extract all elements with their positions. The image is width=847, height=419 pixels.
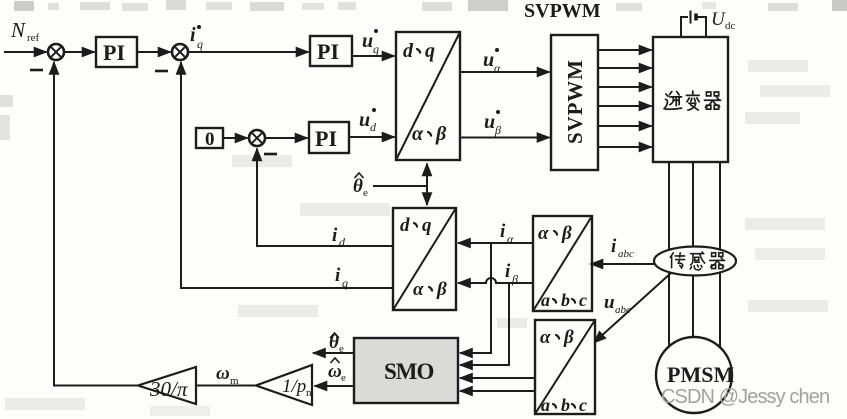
circle PMSM motor	[656, 337, 732, 413]
svg-text:β: β	[511, 272, 518, 286]
wire SVPWM to inverter gate signal 4	[598, 105, 652, 107]
svg-text:b: b	[561, 395, 570, 415]
svg-text:CSDN @Jessy chen: CSDN @Jessy chen	[661, 386, 829, 408]
block alpha-beta to abc current transform	[533, 216, 592, 311]
svg-text:i: i	[190, 24, 196, 46]
svg-text:ω: ω	[328, 361, 342, 382]
wire u_beta* to SVPWM	[460, 137, 550, 139]
svg-text:c: c	[579, 395, 587, 415]
svg-text:β: β	[436, 279, 447, 300]
svg-text:ref: ref	[27, 32, 40, 44]
wire u_alpha* to SVPWM	[460, 71, 550, 73]
svg-text:i: i	[335, 265, 341, 286]
wire junction2 to PI2	[188, 51, 309, 53]
block alpha-beta to abc voltage transform	[535, 320, 595, 414]
svg-text:q: q	[197, 37, 203, 51]
svg-text:n: n	[306, 387, 312, 399]
block SVPWM	[551, 35, 598, 170]
svg-text:PI: PI	[315, 126, 337, 151]
wire junction1 to PI1	[64, 51, 95, 53]
label sensor text chuan-gan-qi	[670, 253, 684, 268]
label inverter text ni-bian-qi	[664, 91, 682, 109]
svg-text:e: e	[363, 187, 368, 199]
svg-text:1/p: 1/p	[282, 376, 306, 397]
wire theta_e to transforms (vertical double arrow)	[426, 165, 428, 203]
svg-text:α: α	[413, 279, 424, 300]
svg-text:β: β	[494, 123, 501, 137]
wire tap i_beta down to SMO	[465, 283, 509, 365]
node summing junction 1	[48, 44, 64, 60]
svg-text:α: α	[538, 223, 549, 244]
svg-text:a: a	[541, 290, 550, 310]
node summing junction 2	[172, 44, 188, 60]
svg-text:0: 0	[205, 129, 215, 150]
svg-text:α: α	[494, 61, 501, 75]
wire SVPWM to inverter gate signal 5	[598, 125, 652, 127]
wire junction3 to PI3	[265, 137, 308, 139]
svg-text:q: q	[342, 276, 348, 290]
svg-text:u: u	[359, 109, 370, 131]
svg-text:q: q	[422, 215, 432, 236]
wire u_alpha voltage into SMO	[460, 377, 535, 379]
svg-text:q: q	[373, 42, 379, 56]
svg-text:i: i	[611, 236, 617, 257]
wire 0 box to junction3	[223, 137, 248, 139]
svg-text:N: N	[10, 18, 26, 42]
svg-text:SVPWM: SVPWM	[563, 60, 587, 144]
wire inverter phase b	[692, 162, 694, 339]
svg-text:α: α	[507, 232, 514, 246]
wire PI2 to dq-ab block (u_q*)	[352, 55, 395, 57]
block PI speed regulator	[96, 37, 137, 67]
svg-text:PI: PI	[103, 40, 125, 65]
svg-text:d: d	[400, 215, 410, 236]
block PI d-axis current regulator	[309, 122, 349, 153]
block dq to alpha-beta voltage transform U1	[396, 32, 460, 160]
svg-text:d: d	[339, 235, 346, 249]
wire omega_m to 30/pi	[196, 385, 256, 387]
svg-text:PMSM: PMSM	[667, 362, 734, 387]
minus sign at junction 1	[30, 69, 43, 72]
svg-text:U: U	[711, 9, 726, 30]
wire omega_e output from SMO to 1/pn	[315, 385, 355, 387]
svg-text:e: e	[341, 372, 346, 384]
wire u_abc from sensor to ab-abc voltage block	[594, 273, 672, 343]
svg-text:u: u	[362, 30, 373, 52]
wire i_abc from sensor to ab-abc current block	[591, 263, 655, 265]
svg-text:α: α	[412, 123, 424, 145]
svg-text:c: c	[579, 290, 587, 310]
svg-text:e: e	[339, 343, 344, 355]
wire PI3 to dq-ab block (u_d*)	[349, 136, 395, 138]
block dq to alpha-beta current transform U2	[393, 208, 456, 310]
ellipse sensor (chuanganqi)	[654, 247, 736, 276]
svg-text:u: u	[484, 111, 495, 133]
block SMO observer	[354, 338, 458, 403]
svg-text:u: u	[604, 292, 615, 313]
svg-text:b: b	[561, 290, 570, 310]
svg-text:i: i	[500, 221, 506, 242]
svg-text:θ: θ	[353, 176, 363, 197]
svg-text:d: d	[403, 40, 414, 62]
svg-text:d: d	[370, 120, 377, 134]
svg-text:SVPWM: SVPWM	[524, 0, 601, 22]
node summing junction 3	[249, 130, 265, 146]
wire inverter phase c	[719, 162, 721, 347]
svg-text:PI: PI	[317, 39, 339, 64]
block inverter	[653, 37, 728, 162]
wire N_ref input	[4, 51, 47, 53]
wire SVPWM to inverter gate signal 1	[598, 49, 652, 51]
block gain 1/pn triangle	[256, 365, 312, 405]
svg-text:β: β	[435, 123, 447, 145]
svg-text:i: i	[505, 261, 511, 282]
block 0 reference	[196, 128, 223, 148]
wire inverter phase a	[668, 162, 670, 346]
svg-text:abc: abc	[618, 248, 634, 260]
wire SVPWM to inverter gate signal 2	[598, 67, 652, 69]
minus sign at junction 3	[264, 153, 277, 156]
svg-text:ω: ω	[216, 363, 230, 384]
wire i_alpha to dq block	[458, 242, 533, 244]
svg-text:m: m	[230, 375, 239, 387]
wire i_q feedback to junction2	[181, 65, 393, 288]
block gain 30/pi triangle	[138, 367, 196, 404]
svg-text:30/π: 30/π	[149, 377, 188, 401]
wire tap i_alpha down to SMO	[465, 243, 491, 353]
wire speed feedback to junction1	[54, 65, 138, 386]
svg-text:a: a	[541, 395, 550, 415]
svg-text:u: u	[483, 49, 494, 71]
block PI q-axis current regulator	[310, 36, 352, 66]
svg-text:i: i	[332, 225, 338, 246]
CJK GLYPHS	[664, 91, 725, 270]
svg-text:β: β	[561, 223, 572, 244]
DC source U_dc symbol	[681, 11, 706, 38]
svg-text:q: q	[425, 40, 435, 62]
svg-text:β: β	[563, 327, 574, 348]
wire SVPWM to inverter gate signal 3	[598, 86, 652, 88]
wire SVPWM to inverter gate signal 6	[598, 146, 652, 148]
wire theta_e horizontal into vertical arrow	[373, 185, 427, 187]
svg-text:dc: dc	[725, 20, 736, 32]
minus sign at junction 2	[155, 70, 168, 73]
wire PI1 to junction2	[137, 51, 171, 53]
wire theta_e output from SMO	[313, 352, 354, 354]
svg-text:α: α	[540, 327, 551, 348]
wire u_beta voltage into SMO	[460, 390, 535, 392]
wire i_beta to dq block with hop	[458, 278, 533, 283]
svg-text:SMO: SMO	[384, 359, 434, 384]
wire i_d feedback to junction3	[257, 151, 393, 246]
svg-text:abc: abc	[615, 304, 631, 316]
